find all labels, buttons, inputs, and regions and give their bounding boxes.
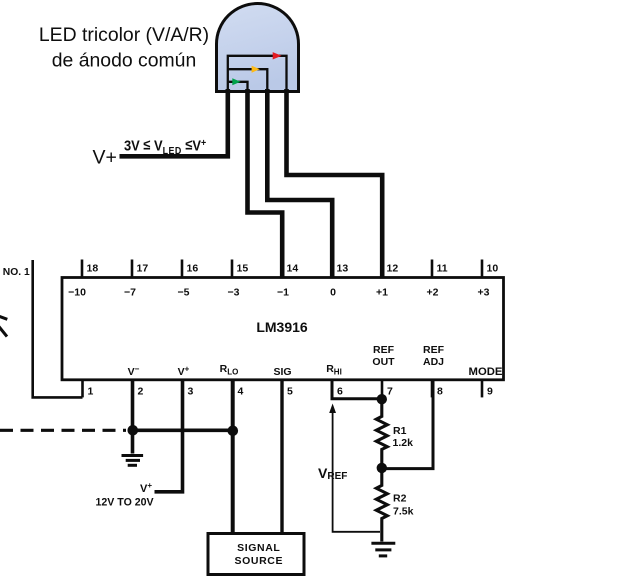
svg-text:11: 11 (437, 263, 448, 275)
svg-text:R1: R1 (393, 425, 407, 437)
svg-text:15: 15 (237, 263, 249, 275)
svg-text:−1: −1 (277, 287, 289, 299)
svg-text:5: 5 (287, 386, 293, 398)
svg-text:ADJ: ADJ (423, 356, 444, 368)
svg-text:REF: REF (373, 344, 395, 356)
svg-text:12: 12 (387, 263, 399, 275)
svg-text:4: 4 (238, 386, 244, 398)
svg-text:17: 17 (137, 263, 149, 275)
svg-text:7.5k: 7.5k (393, 506, 414, 518)
svg-text:SIGNAL: SIGNAL (237, 542, 280, 554)
svg-text:7: 7 (387, 386, 393, 398)
svg-text:6: 6 (337, 386, 343, 398)
svg-text:1.2k: 1.2k (393, 437, 414, 449)
svg-text:0: 0 (330, 287, 336, 299)
svg-text:9: 9 (487, 386, 493, 398)
svg-text:18: 18 (87, 263, 99, 275)
svg-text:−10: −10 (68, 287, 86, 299)
svg-text:8: 8 (437, 386, 443, 398)
svg-text:SOURCE: SOURCE (235, 555, 284, 567)
svg-text:10: 10 (487, 263, 499, 275)
svg-text:V+: V+ (93, 147, 117, 169)
svg-text:16: 16 (187, 263, 199, 275)
svg-text:LED tricolor (V/A/R): LED tricolor (V/A/R) (39, 24, 209, 46)
svg-text:NO. 1: NO. 1 (3, 267, 30, 278)
svg-text:−7: −7 (124, 287, 136, 299)
svg-text:13: 13 (337, 263, 349, 275)
svg-text:2: 2 (138, 386, 144, 398)
svg-text:de ánodo común: de ánodo común (52, 49, 196, 71)
svg-text:LM3916: LM3916 (256, 319, 308, 335)
svg-text:+1: +1 (376, 287, 388, 299)
svg-text:12V TO 20V: 12V TO 20V (96, 496, 154, 508)
svg-text:−5: −5 (178, 287, 190, 299)
svg-text:3: 3 (188, 386, 194, 398)
svg-text:+3: +3 (478, 287, 490, 299)
svg-text:R2: R2 (393, 492, 407, 504)
svg-text:SIG: SIG (273, 366, 291, 378)
svg-text:REF: REF (423, 344, 445, 356)
svg-text:MODE: MODE (469, 366, 503, 378)
svg-text:+2: +2 (427, 287, 439, 299)
svg-text:−3: −3 (228, 287, 240, 299)
svg-text:1: 1 (88, 386, 94, 398)
svg-text:14: 14 (287, 263, 299, 275)
svg-text:OUT: OUT (372, 356, 395, 368)
